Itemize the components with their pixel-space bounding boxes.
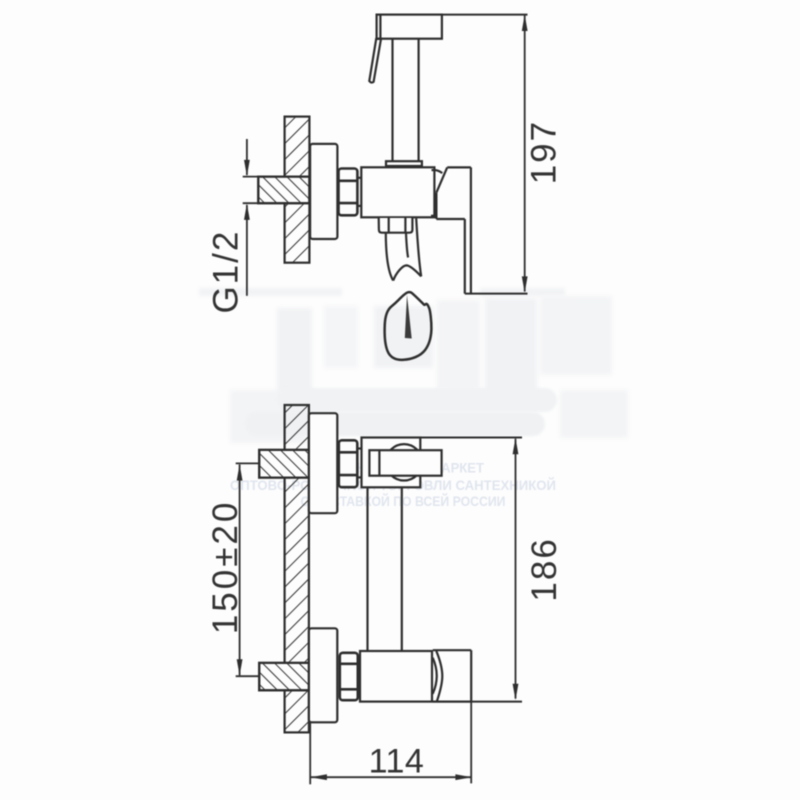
watermark swoosh upper band [277, 388, 557, 412]
dimension G1/2 upper shaft [246, 139, 248, 175]
arrowhead 197 top [522, 15, 528, 31]
water stream upper segment [386, 218, 421, 280]
arrowhead 186 top [513, 438, 519, 454]
upper stub between nut and bracket [357, 449, 361, 478]
dimension G1/2 extension line top [243, 176, 260, 178]
escutcheon plate upper, front view [309, 413, 337, 513]
connection hex nut, side view [339, 169, 358, 216]
dimension 197 extension line top [442, 14, 528, 16]
wall section, side view (hatched) [285, 117, 310, 263]
dimension 197 extension line bottom [465, 293, 528, 295]
mixer handle, front view [433, 650, 472, 701]
svg-text:150±20: 150±20 [206, 500, 245, 635]
mixer handle, side view [431, 167, 471, 293]
arrowhead G1/2 lower [244, 204, 250, 220]
svg-text:114: 114 [369, 743, 425, 781]
watermark logo letter block 1 [277, 308, 312, 400]
dimension 186 extension line bottom [471, 701, 522, 703]
holder pivot circle [386, 444, 422, 480]
svg-text:197: 197 [525, 120, 564, 184]
connecting pipe, front view [368, 487, 402, 651]
lower stub between nut and valve [358, 660, 360, 694]
watermark logo lower-left block [230, 390, 306, 443]
G1/2 inlet pipe through wall, side view (hatched) [258, 177, 309, 204]
dimension 186 line [515, 439, 517, 699]
arrowhead 197 bottom [522, 276, 528, 292]
lower inlet pipe, front view (hatched) [259, 663, 309, 690]
sprayer tube collar [386, 161, 422, 166]
dimension 186 extension line top [420, 437, 522, 439]
dimension 150+/-20 line [239, 465, 241, 676]
watermark logo letter block 3 [374, 306, 433, 368]
escutcheon plate lower, front view [309, 628, 337, 722]
lower hex nut, front view [340, 653, 358, 700]
watermark logo letter block 4 [437, 300, 480, 390]
watermark logo letter block 6 [540, 296, 612, 375]
arrowhead 150+/-20 top [237, 464, 243, 480]
watermark logo top strip left [199, 288, 342, 296]
watermark swoosh lower band [245, 412, 545, 436]
arrowhead 114 right [455, 774, 471, 780]
dimension G1/2 extension line bottom [243, 202, 260, 204]
sprayer head, side view [377, 15, 442, 39]
wall section, front view (hatched) [285, 405, 309, 732]
aerator hex nut under valve [379, 218, 413, 233]
dimension 114 line [311, 776, 471, 778]
arrowhead G1/2 upper [244, 160, 250, 176]
arrowhead 186 bottom [513, 684, 519, 700]
dimension 114 extension line left [309, 723, 311, 785]
dimension 150+/-20 extension line bottom [236, 675, 260, 677]
mixer valve body, side view [361, 167, 434, 217]
mixer valve body, front view [360, 651, 432, 702]
escutcheon flange, side view [310, 144, 337, 239]
dimension 197 line [524, 16, 526, 292]
stub between nut and valve body [357, 178, 361, 206]
dimension G1/2 lower shaft [246, 205, 248, 296]
arrowhead 150+/-20 bottom [237, 659, 243, 675]
arrowhead 114 left [311, 774, 327, 780]
sprayer trigger lever [369, 39, 381, 83]
watermark logo letter block 5 [485, 298, 537, 400]
water stream lower blob [385, 292, 432, 360]
watermark logo lower-right block [560, 390, 628, 438]
watermark logo top strip right [480, 288, 565, 296]
svg-text:G1/2: G1/2 [206, 230, 245, 314]
upper inlet pipe, front view (hatched) [259, 450, 309, 478]
svg-text:186: 186 [525, 537, 564, 601]
sprayer holder bracket body, front view [362, 438, 421, 488]
watermark logo letter block 2 [324, 306, 358, 368]
dimension 114 extension line right [470, 702, 472, 784]
upper hex nut, front view [339, 440, 358, 487]
dimension 150+/-20 extension line top [236, 462, 260, 464]
sprayer tube [393, 39, 419, 162]
sprayer holder arm [369, 450, 441, 476]
